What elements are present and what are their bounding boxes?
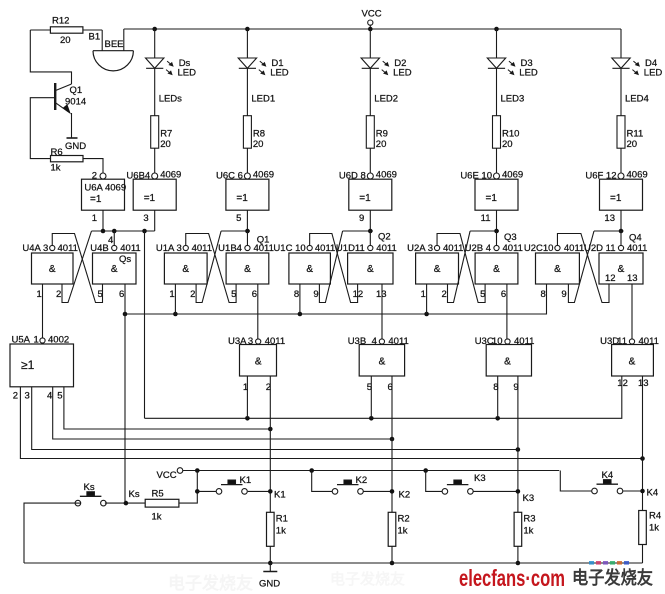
svg-text:9: 9 <box>561 289 566 300</box>
svg-text:4: 4 <box>372 336 377 347</box>
wire <box>30 30 71 84</box>
svg-text:20: 20 <box>60 35 71 46</box>
svg-text:U6D 8: U6D 8 <box>339 171 366 182</box>
inverter U6F 4069 <box>600 179 643 210</box>
pin 10 input circle U3C <box>505 339 510 344</box>
LED D4 <box>620 29 622 58</box>
svg-text:K2: K2 <box>399 490 411 501</box>
NAND gate U2D 4011 <box>599 253 643 284</box>
wire rail to U2A input <box>470 230 499 232</box>
wire U5A pin5 <box>64 387 270 429</box>
node junction <box>516 561 521 566</box>
LED Ds <box>154 29 156 58</box>
svg-text:BEE: BEE <box>105 39 124 50</box>
svg-text:Qs: Qs <box>119 254 131 265</box>
node junction inverter output <box>368 229 373 234</box>
wire rail to bus line 1 <box>144 231 146 418</box>
svg-text:=1: =1 <box>486 193 498 204</box>
svg-text:U6A 4069: U6A 4069 <box>84 183 126 194</box>
svg-text:1k: 1k <box>649 523 659 534</box>
node junction K1 branch <box>195 489 200 494</box>
wire riser to U1B output circle <box>246 231 248 245</box>
svg-text:LED: LED <box>270 68 289 79</box>
wire <box>246 68 248 115</box>
node junction <box>423 468 428 473</box>
svg-text:Q4: Q4 <box>629 233 642 244</box>
node junction U3C pin8 <box>495 416 500 421</box>
svg-text:1: 1 <box>34 335 39 346</box>
svg-text:13: 13 <box>627 273 638 284</box>
svg-text:20: 20 <box>376 139 387 150</box>
node rail junction LED3 <box>494 27 499 32</box>
svg-text:&: & <box>554 264 561 275</box>
svg-text:Q1: Q1 <box>70 85 83 96</box>
wire riser to U2D output circle <box>620 231 622 245</box>
node junction K4 <box>640 456 645 461</box>
node junction inverter output <box>494 229 499 234</box>
svg-text:&: & <box>244 264 251 275</box>
svg-text:4011: 4011 <box>315 243 335 254</box>
svg-text:4011: 4011 <box>192 243 212 254</box>
svg-text:&: & <box>306 264 313 275</box>
NAND gate U4B 4011 <box>93 253 137 284</box>
svg-text:12: 12 <box>617 378 628 389</box>
wire rail to U2C10 input <box>594 230 624 232</box>
wire K3 left riser <box>426 471 442 492</box>
svg-text:R2: R2 <box>398 514 410 525</box>
node rail junction LED2 <box>368 27 373 32</box>
svg-text:LED4: LED4 <box>625 94 649 105</box>
svg-text:2: 2 <box>442 289 447 300</box>
svg-text:1: 1 <box>92 213 97 224</box>
node junction <box>195 468 200 473</box>
pin U6D 8 input circle <box>367 173 373 179</box>
wire rail to U1C input <box>343 230 373 232</box>
wire U3A pin1 <box>246 376 248 418</box>
wire K4 right to node <box>623 490 643 492</box>
wire K2 right to node <box>363 490 392 492</box>
svg-text:4011: 4011 <box>265 336 285 347</box>
watermark color marks <box>589 561 594 565</box>
wire K1 left <box>197 490 216 492</box>
wire <box>496 68 498 115</box>
svg-text:=1: =1 <box>359 193 371 204</box>
inverter U6B 4069 <box>133 179 176 210</box>
svg-text:9: 9 <box>313 289 318 300</box>
resistor R9 20 <box>366 116 374 149</box>
svg-text:1k: 1k <box>51 163 61 174</box>
svg-text:&: & <box>493 264 500 275</box>
inverter U6C 4069 <box>226 179 269 210</box>
svg-text:U6F 12: U6F 12 <box>585 171 616 182</box>
svg-text:R1: R1 <box>276 514 288 525</box>
svg-text:LED: LED <box>519 68 538 79</box>
svg-text:U1B4: U1B4 <box>218 243 242 254</box>
wire <box>154 148 156 173</box>
svg-text:Ks: Ks <box>129 489 140 500</box>
wire riser to U1D output circle <box>369 231 371 245</box>
transistor Q1 9014 <box>54 83 56 110</box>
svg-text:&: & <box>49 264 56 275</box>
wire U4B pin6 to Ks node <box>124 284 126 503</box>
svg-text:20: 20 <box>253 139 264 150</box>
pin U6B4 input circle <box>152 173 158 179</box>
inverter U6E 4069 <box>475 179 518 210</box>
wire <box>83 159 103 174</box>
svg-text:3: 3 <box>25 391 30 402</box>
node junction K3 <box>516 447 521 452</box>
resistor R3 1k <box>514 512 522 546</box>
svg-text:&: & <box>379 357 386 368</box>
svg-text:elecfans·com: elecfans·com <box>459 565 565 591</box>
node junction inverter output <box>245 229 250 234</box>
svg-text:4011: 4011 <box>564 243 584 254</box>
wire reset bus <box>125 284 547 314</box>
node junction U4B riser <box>112 229 117 234</box>
svg-text:1: 1 <box>169 289 174 300</box>
svg-text:R4: R4 <box>649 511 661 522</box>
svg-text:9: 9 <box>359 213 364 224</box>
svg-text:K3: K3 <box>474 473 486 484</box>
svg-text:6: 6 <box>501 289 506 300</box>
svg-text:K1: K1 <box>240 475 252 486</box>
wire cross-couple loop U4A output <box>52 234 102 303</box>
wire <box>101 30 103 51</box>
svg-text:1: 1 <box>421 289 426 300</box>
inverter U6A 4069 <box>82 179 125 210</box>
svg-text:8: 8 <box>541 289 546 300</box>
svg-text:20: 20 <box>502 139 513 150</box>
wire riser to U4B output circle <box>113 231 115 245</box>
wire ground bus <box>24 562 643 564</box>
svg-text:LED: LED <box>178 68 197 79</box>
wire VCC rail <box>124 28 621 30</box>
svg-text:Ks: Ks <box>84 482 95 493</box>
node junction U1C pin8 <box>298 312 303 317</box>
svg-text:U3B: U3B <box>348 336 366 347</box>
svg-text:R10: R10 <box>502 129 519 140</box>
svg-text:4: 4 <box>47 391 52 402</box>
svg-text:R12: R12 <box>52 16 69 27</box>
NAND gate U3A 4011 <box>240 345 277 377</box>
resistor R7 20 <box>151 116 159 149</box>
svg-text:LED: LED <box>644 68 663 79</box>
wire bus line 1 <box>145 376 622 418</box>
resistor R4 1k <box>639 511 647 545</box>
pin output circle U1A <box>183 245 188 250</box>
pushbutton switch Ks <box>75 500 81 506</box>
wire Ks left to ground bus <box>24 503 75 563</box>
svg-text:GND: GND <box>259 579 280 590</box>
svg-text:R9: R9 <box>376 129 388 140</box>
svg-text:5: 5 <box>236 213 241 224</box>
svg-text:LEDs: LEDs <box>159 94 182 105</box>
wire cross-couple loop U1C output <box>310 234 358 303</box>
pushbutton switch K4 <box>592 488 598 494</box>
svg-text:4002: 4002 <box>48 335 69 346</box>
svg-text:11: 11 <box>617 336 627 347</box>
ground GND <box>67 137 78 139</box>
resistor R8 20 <box>243 116 251 149</box>
svg-text:&: & <box>182 264 189 275</box>
svg-text:U6B4: U6B4 <box>126 171 150 182</box>
svg-text:4069: 4069 <box>253 170 274 181</box>
wire Ks right to node <box>75 502 81 504</box>
svg-text:1k: 1k <box>152 512 162 523</box>
svg-text:1k: 1k <box>276 526 286 537</box>
node junction <box>268 561 273 566</box>
LED D2 <box>369 29 371 58</box>
svg-text:4011: 4011 <box>58 243 78 254</box>
svg-text:U4B: U4B <box>90 243 108 254</box>
wire <box>154 68 156 115</box>
resistor R5 1k <box>145 499 179 507</box>
wire U1D pin13 to U3B <box>381 284 383 339</box>
pin 11 input circle U3D <box>629 339 634 344</box>
wire U3C pin9 to K3 R3 <box>517 376 519 512</box>
svg-text:U6C 6: U6C 6 <box>216 171 243 182</box>
pin output circle U2B <box>494 245 499 250</box>
svg-text:K2: K2 <box>356 475 368 486</box>
node K3 <box>516 489 521 494</box>
node junction U6A output <box>101 229 106 234</box>
wire U1A pin1 to bus <box>174 284 176 314</box>
wire U5A pin2 <box>20 387 642 459</box>
wire U5A pin4 <box>53 387 392 439</box>
wire <box>123 29 125 51</box>
svg-text:4011: 4011 <box>627 243 647 254</box>
pin output circle U1D <box>368 245 373 250</box>
wire U3A pin2 to K1 R1 <box>269 376 271 512</box>
svg-text:&: & <box>111 264 118 275</box>
node rail junction LEDs <box>152 27 157 32</box>
node junction U3B pin5 <box>369 416 374 421</box>
wire cross-couple loop U2A output <box>437 234 485 303</box>
NAND gate U3C 4011 <box>486 345 531 377</box>
svg-text:1k: 1k <box>523 526 533 537</box>
svg-text:4011: 4011 <box>639 336 659 347</box>
node junction U4B pin6 <box>123 312 128 317</box>
wire <box>391 546 393 563</box>
svg-text:4069: 4069 <box>627 170 648 181</box>
wire R5 to VCC <box>179 471 197 504</box>
svg-text:&: & <box>629 357 636 368</box>
wire <box>269 546 271 563</box>
svg-text:2: 2 <box>13 391 18 402</box>
wire U1B pin6 to U3A <box>257 284 259 339</box>
NAND gate U1B 4011 <box>226 253 269 284</box>
svg-text:U2C10: U2C10 <box>524 243 554 254</box>
NAND gate U2B 4011 <box>475 253 518 284</box>
resistor R2 1k <box>388 512 396 546</box>
svg-text:11: 11 <box>481 213 491 224</box>
pin 1 input circle U5A <box>40 338 45 343</box>
node junction K2 <box>390 437 395 442</box>
inverter U6D 4069 <box>349 179 392 210</box>
svg-text:=1: =1 <box>144 193 156 204</box>
svg-text:&: & <box>504 357 511 368</box>
wire <box>246 148 248 173</box>
svg-text:VCC: VCC <box>157 470 177 481</box>
wire K2 left riser <box>312 471 333 492</box>
svg-text:U3A: U3A <box>228 336 247 347</box>
svg-text:U2A 3: U2A 3 <box>407 243 433 254</box>
wire <box>30 29 50 31</box>
pushbutton switch K1 <box>216 489 222 495</box>
svg-text:4011: 4011 <box>376 243 396 254</box>
NAND gate U2C10 4011 <box>536 253 580 284</box>
wire U3B pin5 <box>370 376 372 418</box>
svg-text:U6E 10: U6E 10 <box>460 171 492 182</box>
svg-text:6: 6 <box>252 289 257 300</box>
wire U3D pin13 to K4 R4 <box>642 376 644 511</box>
svg-text:K3: K3 <box>523 493 535 504</box>
NAND gate U2A 4011 <box>416 253 459 284</box>
svg-text:4069: 4069 <box>376 170 397 181</box>
NAND gate U4A 4011 <box>32 253 74 284</box>
pin 3 input circle U3A <box>256 339 261 344</box>
wire <box>517 546 519 563</box>
svg-text:&: & <box>255 357 262 368</box>
node junction U2A pin1 <box>424 312 429 317</box>
svg-text:4011: 4011 <box>443 243 463 254</box>
wire cross-couple loop U2C10 output <box>557 234 609 303</box>
wire U3B pin6 to K2 R2 <box>391 376 393 513</box>
svg-text:12: 12 <box>605 273 616 284</box>
wire U2A pin1 to bus <box>426 284 428 314</box>
wire K1 right to node <box>248 490 270 492</box>
svg-text:&: & <box>367 264 374 275</box>
wire <box>620 148 622 173</box>
NAND gate U1D 4011 <box>348 253 393 284</box>
svg-text:电子发烧友: 电子发烧友 <box>168 573 253 593</box>
svg-text:U1C 10: U1C 10 <box>273 243 305 254</box>
wire <box>369 68 371 115</box>
svg-text:4011: 4011 <box>503 243 523 254</box>
node junction K1 <box>268 427 273 432</box>
node junction U1A pin1 <box>173 312 178 317</box>
wire <box>620 68 622 115</box>
LED D3 <box>496 29 498 58</box>
wire riser to U2B output circle <box>496 231 498 245</box>
wire VCC rail bottom <box>183 470 559 472</box>
svg-text:K1: K1 <box>274 490 286 501</box>
pin 2 input circle <box>100 173 106 179</box>
svg-text:&: & <box>618 264 625 275</box>
node junction inverter output <box>619 229 624 234</box>
svg-text:=1: =1 <box>90 194 102 205</box>
node Ks <box>124 501 129 506</box>
node junction <box>309 468 314 473</box>
resistor R1 1k <box>267 512 275 546</box>
svg-text:1k: 1k <box>398 526 408 537</box>
svg-text:20: 20 <box>160 139 171 150</box>
svg-text:2: 2 <box>190 289 195 300</box>
pin output circle U4A <box>50 245 55 250</box>
NAND gate U1A 4011 <box>164 253 207 284</box>
pin output circle U1C <box>307 245 312 250</box>
pushbutton switch K2 <box>332 489 338 495</box>
pin output circle U4B <box>112 245 117 250</box>
svg-text:B1: B1 <box>89 32 101 43</box>
svg-text:6: 6 <box>119 289 124 300</box>
node junction vertical <box>142 229 147 234</box>
pin 4 input circle U3B <box>379 339 384 344</box>
svg-text:4069: 4069 <box>502 170 523 181</box>
wire rail to U1A input <box>221 230 250 232</box>
wire U4A pin1 to U5A <box>42 284 44 338</box>
svg-text:R3: R3 <box>523 514 535 525</box>
svg-text:R5: R5 <box>152 489 164 500</box>
wire U3C pin8 <box>497 376 499 418</box>
NAND gate U1C 4011 <box>289 253 331 284</box>
svg-text:VCC: VCC <box>362 9 382 20</box>
svg-text:Q1: Q1 <box>257 235 270 246</box>
svg-text:4011: 4011 <box>388 336 408 347</box>
pin output circle U2C10 <box>555 245 560 250</box>
wire U2B pin6 to U3C <box>506 284 508 339</box>
wire <box>642 545 644 564</box>
node K4 <box>640 489 645 494</box>
pushbutton switch K3 <box>442 489 448 495</box>
svg-text:Q3: Q3 <box>504 232 517 243</box>
svg-text:≥1: ≥1 <box>21 358 35 372</box>
svg-text:2: 2 <box>92 171 97 182</box>
svg-text:9014: 9014 <box>65 97 86 108</box>
wire emitter <box>71 113 73 138</box>
resistor R6 1k <box>51 156 84 162</box>
svg-text:=1: =1 <box>610 193 622 204</box>
svg-text:U1A 3: U1A 3 <box>156 243 182 254</box>
NOR gate U5A 4002 <box>10 344 74 387</box>
svg-text:2: 2 <box>56 289 61 300</box>
LED D1 <box>246 29 248 58</box>
svg-text:R8: R8 <box>253 129 265 140</box>
svg-text:电子发烧友: 电子发烧友 <box>330 570 405 588</box>
ground GND <box>269 563 271 572</box>
svg-text:LED2: LED2 <box>374 94 398 105</box>
svg-text:R11: R11 <box>627 129 644 140</box>
svg-text:R7: R7 <box>160 129 172 140</box>
resistor R11 20 <box>617 116 625 149</box>
svg-text:3: 3 <box>248 336 253 347</box>
wire U1C pin8 to bus <box>299 284 301 314</box>
node junction <box>390 561 395 566</box>
svg-text:K4: K4 <box>647 488 659 499</box>
node K1 <box>268 489 273 494</box>
pin output circle U2A <box>434 245 439 250</box>
svg-text:20: 20 <box>627 139 638 150</box>
svg-text:U4A 3: U4A 3 <box>22 243 48 254</box>
svg-text:5: 5 <box>57 391 62 402</box>
resistor R10 20 <box>493 116 501 149</box>
pin U6F 12 input circle <box>618 173 624 179</box>
NAND gate U3B 4011 <box>359 345 404 377</box>
svg-text:13: 13 <box>638 378 649 389</box>
svg-text:13: 13 <box>604 213 615 224</box>
svg-text:&: & <box>434 264 441 275</box>
svg-text:U2B 4: U2B 4 <box>465 243 491 254</box>
wire rail to U4A input <box>92 230 155 232</box>
svg-text:4011: 4011 <box>514 336 534 347</box>
node junction U3A pin1 <box>245 416 250 421</box>
wire K3 right to node <box>473 490 518 492</box>
svg-text:3: 3 <box>143 213 148 224</box>
svg-text:K4: K4 <box>602 470 614 481</box>
svg-text:10: 10 <box>492 336 503 347</box>
pin output circle U2D <box>618 245 623 250</box>
svg-text:1: 1 <box>37 289 42 300</box>
